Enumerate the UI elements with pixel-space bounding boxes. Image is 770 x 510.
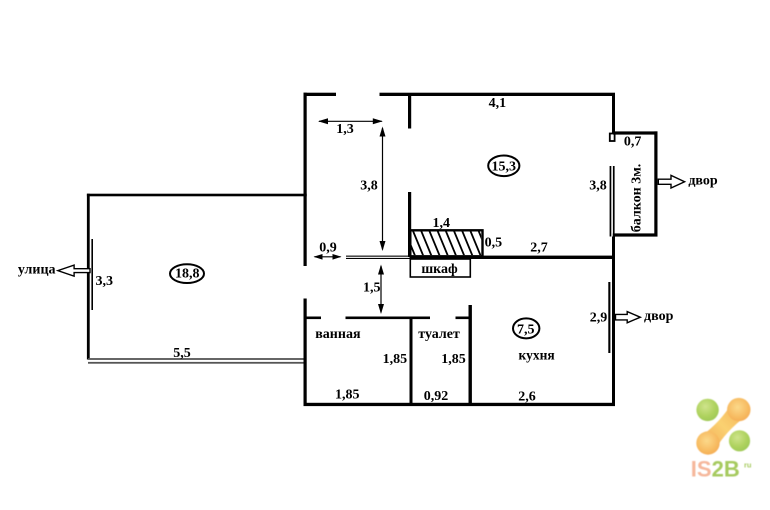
room label: балкон 3м. rotated xyxy=(630,164,645,232)
dimension: label 0,5 xyxy=(485,236,503,251)
wall: top wall left segment of entry hall xyxy=(304,93,337,96)
svg-text:2,6: 2,6 xyxy=(518,389,536,404)
svg-text:1,5: 1,5 xyxy=(363,280,381,295)
dimension: label 0,92 xyxy=(424,389,449,404)
dimension: label 1,4 xyxy=(433,216,451,231)
wall: balcony top wall xyxy=(613,131,658,134)
dimension: arrow 3,8 vertical xyxy=(360,127,385,252)
window: room 18,8 window inner line 3,3 xyxy=(91,239,93,310)
wall: balcony right wall xyxy=(654,131,657,236)
room area ellipse: 15,3 xyxy=(488,156,519,177)
dimension: label 0,7 xyxy=(624,134,642,149)
wall: right wall lower (kitchen outside wall) xyxy=(612,237,615,406)
dimension: label 1,85 bathroom bottom xyxy=(335,388,360,403)
dimension: arrow 1,5 vertical xyxy=(363,265,384,315)
svg-text:15,3: 15,3 xyxy=(492,159,517,174)
wall: right wall upper (above balcony door) xyxy=(612,95,615,134)
wall: wall between toilet and kitchen xyxy=(469,305,472,406)
svg-text:3,8: 3,8 xyxy=(360,179,378,194)
svg-text:балкон 3м.: балкон 3м. xyxy=(630,164,645,232)
logo: green circle top-left xyxy=(696,399,718,421)
svg-text:0,92: 0,92 xyxy=(424,389,449,404)
svg-text:2,9: 2,9 xyxy=(590,310,608,325)
wall: toilet top wall segment C xyxy=(456,317,469,320)
svg-text:7,5: 7,5 xyxy=(517,322,535,337)
svg-text:кухня: кухня xyxy=(519,348,555,363)
wall: balcony door jamb stub xyxy=(610,134,615,142)
svg-text:улица: улица xyxy=(18,262,56,277)
svg-text:1,85: 1,85 xyxy=(335,388,360,403)
closet: label box шкаф xyxy=(410,259,470,277)
wall: wall 2,7 between hall and kitchen block xyxy=(410,256,615,259)
svg-text:3,8: 3,8 xyxy=(589,179,607,194)
svg-text:3,3: 3,3 xyxy=(96,274,114,289)
svg-text:18,8: 18,8 xyxy=(175,267,200,282)
wall: interior wall lower segment above closet xyxy=(408,192,411,257)
wire: entrance door opening (gap) xyxy=(337,93,380,96)
svg-text:двор: двор xyxy=(688,174,718,189)
svg-text:туалет: туалет xyxy=(418,327,460,342)
dimension: label 3,8 balcony window xyxy=(589,179,607,194)
wall: interior wall upper segment between hall and room 15,3 xyxy=(408,95,411,129)
exit arrow: улица (left) xyxy=(18,262,90,277)
dimension: label 3,3 xyxy=(96,274,114,289)
svg-text:0,5: 0,5 xyxy=(485,236,503,251)
wall: bottom outside wall xyxy=(304,403,616,406)
dimension: label 1,85 toilet right xyxy=(441,352,466,367)
window: balcony window double line xyxy=(610,166,615,237)
dimension: label 4,1 xyxy=(489,96,507,111)
svg-text:1,3: 1,3 xyxy=(336,122,354,137)
wall: room 18,8 top wall xyxy=(87,194,307,197)
logo: wordmark IS2B xyxy=(691,456,752,481)
window: room 18,8 bottom wall double line 5,5 xyxy=(88,358,304,364)
svg-text:1,4: 1,4 xyxy=(433,216,451,231)
dimension: label 2,7 xyxy=(530,240,548,255)
svg-text:ванная: ванная xyxy=(315,327,361,342)
svg-text:двор: двор xyxy=(644,309,674,324)
svg-text:2,7: 2,7 xyxy=(530,240,548,255)
dimension: label 2,9 xyxy=(590,310,608,325)
svg-text:шкаф: шкаф xyxy=(421,262,458,277)
wall: room 18,8 left wall xyxy=(87,194,90,360)
dimension: arrow 0,9 xyxy=(314,241,342,260)
wall: bathroom top wall segment A xyxy=(304,317,322,320)
wire: hall open threshold double line xyxy=(346,256,410,259)
exit arrow: двор upper (right of balcony) xyxy=(658,174,718,189)
svg-text:5,5: 5,5 xyxy=(173,346,191,361)
dimension: label 1,85 bathroom right xyxy=(383,352,408,367)
room area ellipse: 7,5 xyxy=(513,318,539,338)
room label: туалет xyxy=(418,327,460,342)
wall: bathroom top wall segment B xyxy=(346,317,431,320)
svg-text:4,1: 4,1 xyxy=(489,96,507,111)
room label: ванная xyxy=(315,327,361,342)
svg-text:1,85: 1,85 xyxy=(383,352,408,367)
room area ellipse: 18,8 xyxy=(170,264,204,283)
wall: balcony bottom wall xyxy=(613,233,658,236)
svg-text:0,9: 0,9 xyxy=(319,241,337,256)
wall: left wall of entry hall xyxy=(304,93,307,266)
closet: hatched closet box xyxy=(404,229,490,258)
wall: left wall of bathroom block xyxy=(304,299,307,406)
room label: кухня xyxy=(519,348,555,363)
svg-text:ru: ru xyxy=(744,461,752,470)
svg-text:1,85: 1,85 xyxy=(441,352,466,367)
window: kitchen window line 2,9 xyxy=(608,282,610,353)
wall: divider between bathroom and toilet xyxy=(410,317,413,406)
dimension: label 5,5 xyxy=(173,346,191,361)
exit arrow: двор lower (right of kitchen) xyxy=(616,309,674,324)
wall: top wall of room 15,3 xyxy=(380,93,616,96)
logo: green circle bottom-right xyxy=(729,430,750,451)
svg-text:IS2B: IS2B xyxy=(691,456,740,481)
dimension: arrow 1,3 xyxy=(318,118,383,137)
svg-text:0,7: 0,7 xyxy=(624,134,642,149)
logo: orange dumbbell xyxy=(696,398,750,455)
dimension: label 2,6 xyxy=(518,389,536,404)
